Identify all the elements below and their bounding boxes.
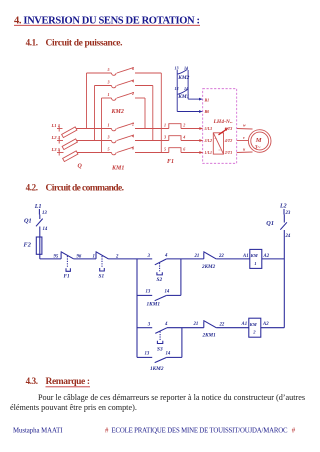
thermal relay F1 element 3	[169, 148, 181, 153]
svg-text:ECOLE PRATIQUE DES MINE DE TOU: ECOLE PRATIQUE DES MINE DE TOUISSIT/OUJD…	[112, 428, 288, 435]
node branch vertical	[136, 259, 138, 358]
svg-text:v: v	[243, 135, 245, 140]
svg-text:KM1: KM1	[111, 165, 124, 171]
aux contact labels	[175, 66, 190, 100]
power terminal arrows at module	[199, 127, 203, 154]
coil KM1 box	[250, 249, 262, 268]
svg-text:L3 5: L3 5	[51, 147, 61, 152]
svg-text:A1: A1	[241, 322, 248, 327]
svg-text:KM2: KM2	[177, 75, 189, 81]
svg-text:5: 5	[108, 67, 110, 72]
svg-text:Q1: Q1	[24, 217, 32, 224]
svg-text:14: 14	[184, 86, 188, 91]
svg-text:2: 2	[131, 91, 134, 96]
thermal relay F1 element 1	[169, 124, 181, 129]
KM1 pin numbers	[107, 122, 136, 152]
svg-text:1: 1	[93, 254, 95, 259]
svg-text:u: u	[243, 147, 246, 152]
svg-text:4.3.: 4.3.	[26, 376, 38, 386]
aux right riser	[187, 70, 189, 99]
svg-text:13: 13	[175, 86, 179, 91]
NO pushbutton S3	[155, 328, 167, 344]
NC pushbutton S1	[96, 252, 109, 271]
svg-text:3: 3	[107, 80, 110, 85]
svg-text:1: 1	[108, 92, 110, 97]
svg-text:14: 14	[184, 66, 188, 71]
svg-text:3~: 3~	[254, 145, 261, 151]
motor terminal letters	[243, 123, 246, 152]
svg-text:5: 5	[108, 147, 110, 152]
svg-text:2: 2	[131, 122, 134, 127]
svg-text:B0: B0	[204, 109, 210, 114]
svg-text:Mustapha MAATI: Mustapha MAATI	[13, 428, 63, 435]
svg-text:14: 14	[43, 227, 48, 232]
aux left riser	[176, 70, 178, 112]
svg-text:6/T3: 6/T3	[225, 126, 233, 131]
heading 4.3	[26, 376, 90, 387]
svg-text:Q1: Q1	[266, 220, 274, 227]
svg-text:14: 14	[165, 290, 170, 295]
svg-text:2: 2	[182, 123, 185, 128]
svg-text:4: 4	[182, 135, 185, 140]
starter output arrow	[219, 128, 229, 135]
svg-text:KM: KM	[249, 322, 258, 327]
disconnector Q pole 2	[62, 139, 77, 150]
svg-text:13: 13	[175, 66, 179, 71]
contactor KM1 pole 2	[112, 135, 134, 143]
parallel contact 1KM1 branch	[137, 259, 181, 301]
parallel contact 1KM2 branch	[137, 328, 182, 363]
svg-text:L2: L2	[279, 203, 287, 209]
svg-text:4: 4	[164, 253, 168, 258]
wire row1 main	[57, 126, 200, 132]
aux contact KM1 blade	[178, 90, 188, 95]
power circuit labels	[51, 66, 262, 171]
rail rung1 segments	[40, 258, 284, 260]
coil KM2 box	[249, 318, 261, 337]
svg-text:A1: A1	[242, 254, 249, 259]
svg-text:Q: Q	[78, 163, 83, 169]
wire to B0	[177, 111, 199, 113]
contactor KM2 pole 2	[95, 80, 153, 88]
svg-text:6: 6	[132, 146, 135, 151]
svg-text:4: 4	[131, 134, 134, 139]
svg-text:2KM2: 2KM2	[201, 264, 216, 270]
left feeder wire from L1	[38, 209, 40, 259]
svg-text:L2 3: L2 3	[51, 135, 61, 140]
svg-text:LH4-N..: LH4-N..	[213, 119, 233, 125]
svg-text:95: 95	[54, 254, 59, 259]
svg-text:KM2: KM2	[111, 109, 124, 115]
svg-text:B1: B1	[204, 97, 210, 102]
contactor KM2 pole 1	[87, 68, 162, 76]
paragraph	[10, 393, 305, 412]
rail rung2 segments	[137, 327, 284, 329]
svg-text:3: 3	[147, 254, 151, 259]
svg-text:3/L2: 3/L2	[204, 138, 213, 143]
disconnector Q pole 1	[62, 127, 77, 138]
svg-text:24: 24	[285, 234, 291, 239]
starter module dashed enclosure LH4-N	[203, 89, 237, 164]
svg-text:1: 1	[164, 123, 166, 128]
contactor KM2 pole 3	[102, 93, 146, 101]
svg-text:6: 6	[183, 147, 186, 152]
NO pushbutton S2	[155, 259, 167, 275]
svg-text:4. INVERSION DU SENS DE ROTATI: 4. INVERSION DU SENS DE ROTATION :	[14, 15, 200, 26]
svg-text:S2: S2	[157, 277, 163, 283]
svg-text:3: 3	[147, 322, 151, 327]
svg-text:5: 5	[164, 147, 166, 152]
disconnector Q1 right blade	[280, 222, 287, 229]
svg-text:21: 21	[193, 322, 199, 327]
F1 pin numbers	[163, 123, 186, 152]
svg-text:A2: A2	[263, 254, 270, 259]
svg-text:w: w	[243, 123, 246, 128]
wire row3 main	[57, 150, 200, 156]
svg-text:A2: A2	[262, 322, 269, 327]
svg-text:S3: S3	[157, 346, 163, 352]
thermal relay F1 element 2	[169, 136, 181, 141]
svg-text:1: 1	[108, 123, 110, 128]
svg-text:éléments pouvant être pris en: éléments pouvant être pris en compte).	[10, 403, 137, 412]
svg-text:Pour le câblage de ces démarre: Pour le câblage de ces démarreurs se rep…	[38, 393, 305, 402]
svg-text:1KM1: 1KM1	[147, 302, 161, 308]
disconnector Q pole 3	[63, 151, 78, 162]
svg-text:L1 1: L1 1	[51, 123, 61, 128]
svg-text:F1: F1	[167, 159, 174, 165]
svg-text:Circuit de puissance.: Circuit de puissance.	[46, 39, 123, 49]
svg-text:KM: KM	[250, 253, 259, 258]
footer	[13, 428, 296, 435]
svg-text:4: 4	[164, 322, 168, 327]
module terminal labels	[204, 97, 233, 155]
svg-text:L1: L1	[34, 204, 42, 210]
arrowheads B1 B0	[199, 98, 203, 113]
svg-text:3: 3	[163, 135, 166, 140]
contactor KM1 pole 1	[112, 123, 134, 131]
svg-text:13: 13	[145, 352, 150, 357]
svg-text:21: 21	[194, 254, 200, 259]
right feeder wire from L2	[283, 209, 285, 328]
svg-text:Circuit de commande.: Circuit de commande.	[46, 183, 125, 193]
wire to B1	[188, 98, 200, 100]
motor M circles	[248, 130, 271, 153]
aux contact KM2 blade	[178, 69, 188, 74]
contactor KM1 pole 3	[112, 147, 134, 155]
motor M wires	[237, 129, 253, 153]
svg-text:1/L1: 1/L1	[205, 150, 213, 155]
KM2 output crossing wires	[145, 73, 161, 153]
svg-text:M: M	[255, 137, 262, 144]
svg-text:13: 13	[42, 211, 47, 216]
svg-text:F2: F2	[24, 241, 31, 248]
wire row2 main	[57, 138, 200, 144]
svg-text:2/T1: 2/T1	[224, 150, 233, 155]
svg-text:KM1: KM1	[177, 94, 189, 100]
svg-text:Remarque :: Remarque :	[46, 377, 91, 387]
NC contact 2KM1	[203, 320, 216, 327]
svg-text:#: #	[105, 428, 109, 435]
svg-text:6: 6	[132, 66, 135, 71]
NC contact 2KM2	[203, 252, 216, 259]
svg-text:2: 2	[252, 330, 256, 335]
svg-text:4.2.: 4.2.	[26, 182, 38, 192]
svg-text:2: 2	[115, 254, 119, 259]
svg-text:#: #	[292, 428, 296, 435]
NC contact F1	[61, 252, 74, 272]
svg-text:4: 4	[131, 79, 134, 84]
control circuit labels	[24, 203, 291, 372]
svg-text:13: 13	[146, 290, 151, 295]
svg-text:S1: S1	[99, 274, 105, 280]
fuse F2	[36, 237, 42, 254]
starter module inner block	[213, 133, 223, 154]
svg-text:5/L3: 5/L3	[205, 126, 213, 131]
svg-text:2KM1: 2KM1	[202, 333, 217, 339]
svg-text:96: 96	[77, 254, 82, 259]
svg-text:1KM2: 1KM2	[150, 366, 164, 372]
svg-text:3: 3	[107, 135, 110, 140]
svg-text:4/T2: 4/T2	[224, 138, 233, 143]
svg-text:22: 22	[219, 322, 225, 327]
KM2 input risers	[87, 73, 102, 153]
svg-text:4.1.: 4.1.	[26, 38, 38, 48]
title heading 4	[14, 15, 200, 26]
KM2 pin numbers	[107, 66, 136, 97]
svg-text:F1: F1	[64, 274, 71, 280]
svg-text:23: 23	[285, 211, 291, 216]
disconnector Q1 left blade	[36, 219, 43, 227]
svg-text:22: 22	[218, 254, 224, 259]
svg-text:14: 14	[166, 352, 171, 357]
svg-text:1: 1	[254, 261, 256, 266]
